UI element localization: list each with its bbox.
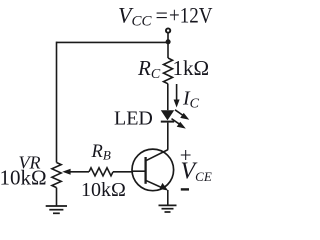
LED emission arrow 2 bbox=[172, 119, 180, 125]
ground (emitter) bbox=[159, 204, 177, 206]
wire RB to base bbox=[113, 171, 132, 173]
wire terminal stub bbox=[167, 33, 169, 42]
wire to Rc bbox=[167, 43, 169, 58]
ground (VR) bbox=[46, 205, 67, 207]
resistor RB zigzag bbox=[89, 168, 113, 176]
svg-text:RB: RB bbox=[91, 142, 111, 163]
svg-text:VCC=+12V: VCC=+12V bbox=[118, 2, 213, 29]
node Vcc terminal bbox=[166, 28, 170, 32]
LED emission arrow 1 bbox=[175, 110, 183, 116]
LED cathode bar bbox=[161, 121, 174, 123]
wire Rc to LED bbox=[167, 84, 169, 110]
current arrow IC bbox=[176, 84, 178, 102]
svg-text:IC: IC bbox=[182, 88, 200, 112]
svg-text:RC: RC bbox=[137, 56, 161, 82]
wire emitter down bbox=[167, 190, 169, 205]
svg-text:LED: LED bbox=[114, 107, 153, 129]
collector diagonal bbox=[146, 150, 168, 161]
resistor RC zigzag bbox=[164, 58, 173, 84]
svg-text:1kΩ: 1kΩ bbox=[173, 56, 210, 80]
svg-text:VCE: VCE bbox=[181, 159, 212, 185]
junction dot bbox=[166, 39, 171, 44]
svg-text:10kΩ: 10kΩ bbox=[81, 179, 126, 201]
wire VR to ground bbox=[56, 188, 58, 206]
wire LED to collector bbox=[167, 123, 169, 150]
wire left vertical bbox=[56, 42, 58, 163]
LED anode triangle bbox=[161, 110, 174, 120]
svg-text:10kΩ: 10kΩ bbox=[0, 165, 47, 189]
wire base inside bbox=[132, 170, 146, 172]
label minus bbox=[181, 188, 189, 190]
transistor base bar bbox=[144, 157, 146, 184]
wiper arrow line bbox=[70, 171, 89, 173]
potentiometer VR zigzag bbox=[52, 163, 61, 188]
transistor Q1 circle bbox=[132, 149, 174, 191]
emitter diagonal bbox=[146, 180, 164, 188]
wire top horizontal bbox=[57, 41, 169, 43]
emitter arrowhead bbox=[160, 183, 169, 191]
wiper arrowhead bbox=[62, 169, 70, 175]
